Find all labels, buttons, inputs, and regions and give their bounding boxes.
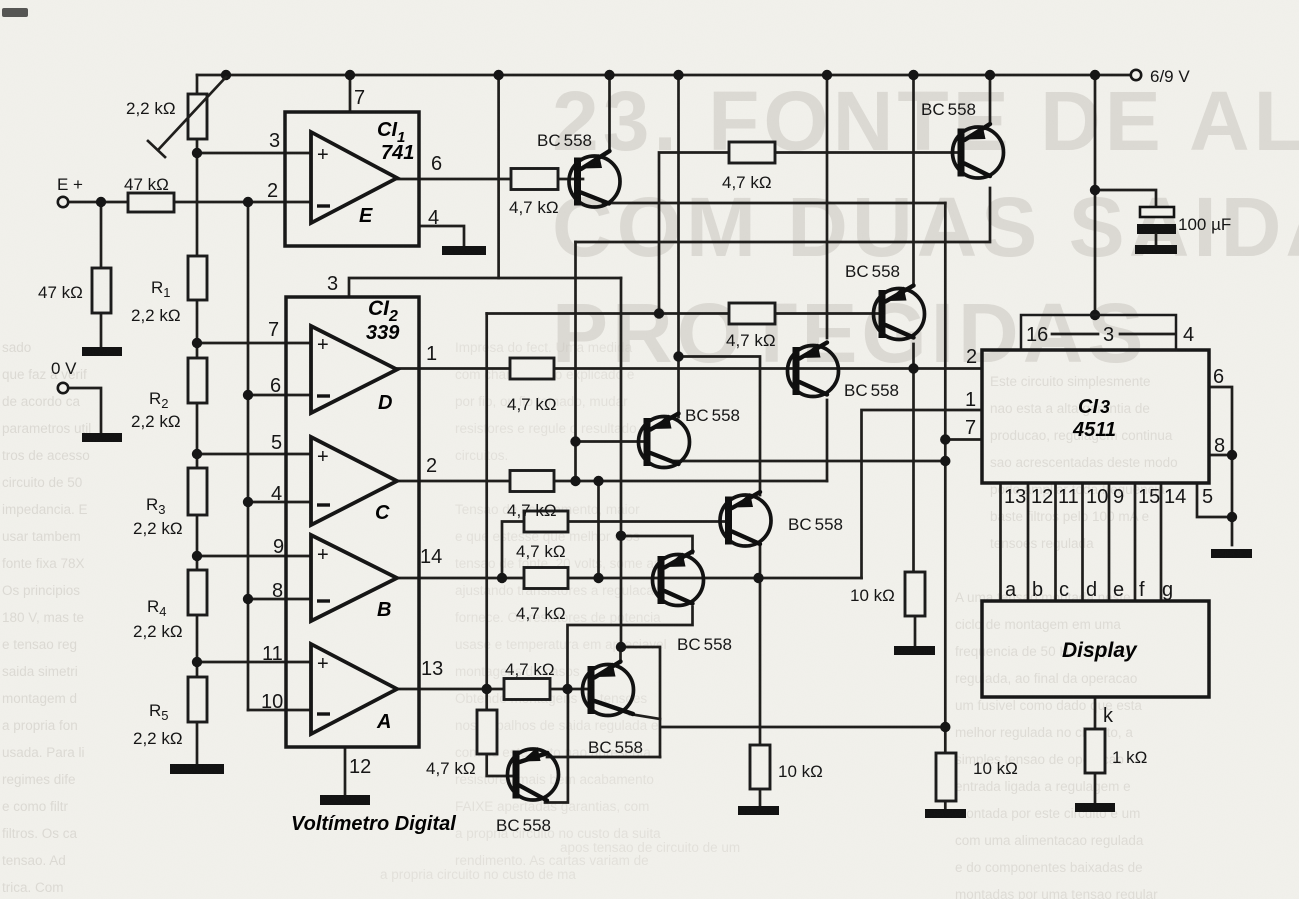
label 10k pin1 <box>778 762 823 781</box>
wire: T8 base feed <box>487 754 513 776</box>
wire: T4 base wire <box>576 440 645 443</box>
resistor 4,7k comparator B output <box>524 568 568 589</box>
wire: T6 collector link <box>568 607 693 689</box>
wire: E+ input line to CI1 pin 2 <box>68 201 311 204</box>
wire: 0V terminal lead <box>68 388 101 433</box>
wire: CI1 output pin 6 to T1 base <box>397 178 583 181</box>
transistor T1 BC558 (741 stage) <box>569 151 620 207</box>
wire: capacitor branch <box>1095 190 1156 207</box>
capacitor 100uF <box>1137 207 1176 245</box>
wire: display cathode lead <box>1094 697 1097 803</box>
label 10k pin2 <box>850 586 895 605</box>
label R1 <box>131 278 181 325</box>
resistor 1k display cathode <box>1085 729 1105 773</box>
wire: CI3 pins 6/8/5 to ground <box>1197 387 1232 545</box>
wire: pin2 pulldown ground stem <box>914 616 917 646</box>
resistor 10k pin1 pulldown <box>750 745 770 789</box>
wire: comparator D + input (pin 7) <box>197 342 311 345</box>
wire: comparator B - input (pin 8) <box>248 598 311 601</box>
wire: T4/T5 emitter feed riser <box>679 75 761 495</box>
ground: 0V terminal <box>82 433 122 442</box>
resistor 4,7k comparator A output <box>504 679 550 700</box>
transistor T5 BC558 <box>720 492 771 546</box>
wire: T3a base feed <box>487 312 879 315</box>
comparator CI2 339 box <box>286 297 419 747</box>
wire: T2 base feed net <box>659 153 958 314</box>
wire: pin7 pulldown ground stem <box>944 801 947 809</box>
terminal 6/9V <box>1131 70 1141 80</box>
label 10k pin7 <box>973 759 1018 778</box>
label 4,7k compA <box>505 660 555 679</box>
node: compA junctions <box>482 684 573 694</box>
wire: divider chain column <box>196 139 199 764</box>
wire: comparator C - input (pin 4) <box>248 501 311 504</box>
CI3 labels <box>965 324 1225 601</box>
junction dots on supply rail <box>221 70 1100 80</box>
wire: CI2 pin 3 net riser to rail <box>497 75 500 278</box>
wire: T8 collector link <box>545 757 568 803</box>
label BC558 T5 <box>788 515 843 534</box>
resistor 10k pin2 pulldown <box>905 572 925 616</box>
label 4,7k T8 <box>426 759 476 778</box>
ground: CI1 pin 4 <box>442 246 486 255</box>
ground: capacitor <box>1135 245 1177 254</box>
resistor 4,7k T2 base <box>729 142 775 163</box>
wire: emitter chain vertical x620 <box>620 278 623 647</box>
label 4,7k T5 <box>516 542 566 561</box>
wire: CI2 pin 3 to supply <box>349 278 621 297</box>
label 4,7k compD <box>507 395 557 414</box>
wire: T4 base riser <box>574 242 577 481</box>
transistor T3b BC558 <box>788 343 839 397</box>
wire: comparator B output line <box>397 577 862 580</box>
node: pin7 net junctions <box>940 434 950 732</box>
label R4 <box>133 597 183 641</box>
op-amp CI1 741 box <box>285 112 419 246</box>
node: T7 emitter tap <box>616 642 626 652</box>
node: T3a base net <box>654 308 664 318</box>
label BC558 T8 <box>496 816 551 835</box>
wire: CI3 output d <box>1081 483 1084 601</box>
ground: divider bottom <box>170 764 224 774</box>
wire: T6 emitter link <box>621 536 693 553</box>
resistor R1 2,2k <box>188 256 207 300</box>
resistor 47k series <box>128 193 174 212</box>
wire: CI3 output f <box>1134 483 1137 601</box>
resistor 47k shunt <box>92 268 111 313</box>
comparator B triangle <box>311 535 397 621</box>
ground: CI3 pin 5/8 <box>1211 549 1252 558</box>
wire: comparator C output line <box>397 480 827 483</box>
label R3 <box>133 495 183 538</box>
node: emitter feed tap <box>673 351 683 361</box>
wire: rail to CI3 supply pins riser <box>1094 75 1097 315</box>
wire: T3b emitter riser to rail <box>826 75 829 338</box>
CI3 supply notch (pins 16,3,4) <box>1021 315 1176 350</box>
wire: CI3 output e <box>1108 483 1111 601</box>
label 4,7k compC <box>507 501 557 520</box>
label BC558 T2 <box>921 100 976 119</box>
resistor R3 2,2k <box>188 468 207 515</box>
ground: 47k shunt <box>82 347 122 356</box>
transistor T3a BC558 <box>874 286 925 340</box>
label BC558 T3a <box>845 262 900 281</box>
node: capacitor tap <box>1090 185 1100 195</box>
comparator D triangle <box>311 326 397 413</box>
wire: base column to A output <box>485 314 488 711</box>
CI2 labels <box>261 273 443 778</box>
node: T6 emitter tap <box>616 531 626 541</box>
label R2 <box>131 389 181 431</box>
wire: inverting input bus <box>247 202 250 710</box>
wire: T1 collector line <box>603 202 945 205</box>
node: inverting bus taps <box>243 390 253 604</box>
label 4,7k compB <box>516 604 566 623</box>
wire: T1 emitter riser to rail <box>608 75 611 151</box>
label BC558 T1 <box>537 131 592 150</box>
wire: comparator A output line <box>397 688 588 691</box>
wire: comparator D output to CI3 pin 2 <box>397 367 981 370</box>
label BC558 T4 <box>685 406 740 425</box>
wire: T4 collector to pin7 net <box>672 460 945 463</box>
wire: T3a emitter riser to rail <box>912 75 915 284</box>
ground: pin7 pulldown <box>925 809 966 818</box>
transistor T7 BC558 <box>583 662 634 716</box>
wire: CI3 output b <box>1027 483 1030 601</box>
wire: comparator C + input (pin 5) <box>197 453 311 456</box>
wire: T7 emitter node to pin7 net <box>621 647 946 757</box>
display box <box>982 601 1209 697</box>
wire: T5 base branch <box>502 522 726 579</box>
label 100uF <box>1178 215 1231 234</box>
node: CI3 top pin 3 tap <box>1090 310 1100 320</box>
resistor 4,7k comparator D output <box>510 358 554 379</box>
node: pin2 net junction <box>908 363 918 373</box>
wire: comparator A - input (pin 10) <box>248 709 311 712</box>
wire: CI3 output c <box>1054 483 1057 601</box>
wire: CI1 pin 3 input <box>197 152 311 155</box>
wire: pin1 pulldown ground stem <box>759 789 762 806</box>
wire: compC to compB link riser <box>597 481 600 578</box>
wire: T7 emitter link <box>619 647 622 662</box>
wire: CI3 pin 7 input <box>945 438 981 441</box>
scan artifact: page corner mark <box>2 8 28 17</box>
wire: CI3 output a <box>999 483 1002 601</box>
node: divider taps <box>192 148 202 667</box>
resistor 4,7k T1 base <box>511 169 558 190</box>
label Display <box>1062 639 1138 662</box>
wire: CI1 pin 4 to ground <box>419 226 464 246</box>
resistor 4,7k comparator C output <box>510 471 554 492</box>
label 2,2k pot <box>126 99 176 118</box>
label 47k series <box>124 175 169 194</box>
transistor T2 BC558 (top right) <box>953 124 1004 178</box>
label 6/9 V <box>1150 67 1190 86</box>
comparator C triangle <box>311 437 397 525</box>
node: CI3 pins 8/5 junctions <box>1227 450 1237 522</box>
IC CI3 4511 box <box>982 350 1209 483</box>
wire: CI3 output g <box>1160 483 1163 601</box>
wire: T2 emitter riser to rail <box>989 75 992 124</box>
resistor 4,7k T8 base (vertical) <box>477 710 497 754</box>
terminal E+ <box>58 197 68 207</box>
wire: CI3 pin 1 drop <box>862 410 982 578</box>
terminal 0V <box>58 383 68 393</box>
ground: pin2 pulldown <box>894 646 935 655</box>
resistor R2 2,2k <box>188 358 207 403</box>
wire: T3b collector riser <box>826 400 829 481</box>
wire: comparator B + input (pin 9) <box>197 555 311 558</box>
label BC558 T3b <box>844 381 899 400</box>
transistor T6 BC558 <box>653 552 704 606</box>
label k <box>1103 705 1114 727</box>
label Voltimetro Digital <box>291 813 456 835</box>
wire: pot top to rail <box>196 75 199 94</box>
wire: comparator A + input (pin 11) <box>197 661 311 664</box>
label 4,7k T1 <box>509 198 559 217</box>
node: compC junctions <box>570 476 603 486</box>
node: compB junctions <box>497 573 764 583</box>
ground: 1k <box>1075 803 1115 812</box>
wire: CI1 pin 7 to rail <box>349 75 352 112</box>
wire: T5 collector drop <box>759 546 762 745</box>
potentiometer 2,2k body <box>148 77 226 157</box>
transistor T8 BC558 <box>508 747 559 801</box>
resistor 4,7k T3a base <box>729 303 775 324</box>
wire: T2 collector cross link <box>576 188 991 242</box>
resistor R5 2,2k <box>188 677 207 722</box>
label E+ <box>57 175 83 194</box>
comparator A triangle <box>311 644 397 734</box>
wire: comparator D - input (pin 6) <box>248 394 311 397</box>
wire: T3a collector riser and pin2 pulldown <box>912 344 915 572</box>
wire: +V supply top rail <box>197 74 1131 77</box>
wire: T7 collector link <box>630 714 660 719</box>
ground: CI2 pin 12 <box>320 795 370 805</box>
node: T4 base tap <box>570 436 580 446</box>
wire: CI3 pin7 net vertical <box>944 203 947 753</box>
CI1 labels <box>267 87 442 229</box>
ground: pin1 pulldown <box>738 806 779 815</box>
resistor R4 2,2k <box>188 570 207 615</box>
wire: 47k shunt branch to ground <box>100 202 103 347</box>
wire: CI2 pin 12 to ground <box>344 747 347 795</box>
label 4,7k T3a <box>726 331 776 350</box>
label 0 V <box>51 359 77 378</box>
label 1k <box>1112 748 1147 767</box>
label BC558 T6 <box>677 635 732 654</box>
node: E+ branch junctions <box>96 197 253 207</box>
transistor T4 BC558 <box>639 414 690 468</box>
resistor 4,7k T5 base <box>524 511 568 532</box>
label R5 <box>133 701 183 748</box>
wire: T8 emitter link <box>547 689 660 757</box>
resistor 10k pin7 pulldown <box>936 753 956 801</box>
label BC558 T7 <box>588 738 643 757</box>
label 47k shunt <box>38 283 83 302</box>
label 4,7k T2 <box>722 173 772 192</box>
